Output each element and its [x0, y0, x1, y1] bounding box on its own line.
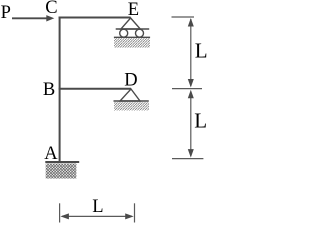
svg-text:E: E	[128, 0, 139, 20]
svg-text:P: P	[1, 3, 11, 23]
svg-text:A: A	[44, 144, 58, 164]
svg-text:C: C	[45, 0, 57, 18]
svg-text:D: D	[124, 71, 137, 91]
svg-text:L: L	[194, 108, 207, 132]
svg-text:L: L	[92, 197, 103, 217]
svg-text:L: L	[195, 38, 208, 62]
svg-text:B: B	[43, 80, 55, 100]
